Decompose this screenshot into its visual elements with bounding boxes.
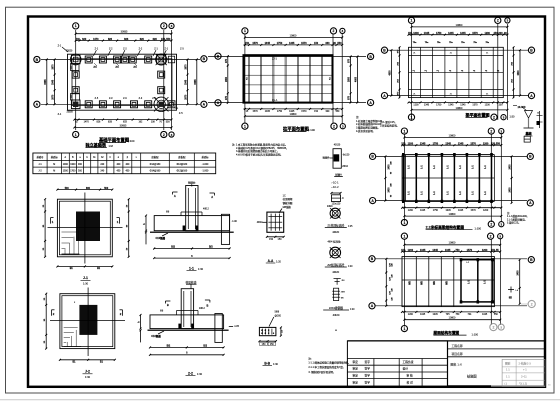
roof plan overall bottom dimension — [403, 317, 501, 321]
framing plan 2.2 segmented top dimension — [401, 143, 502, 147]
svg-text:1: 1 — [411, 115, 413, 119]
footing J-1 column (black) — [76, 212, 100, 242]
grid circle A right (column plan) — [368, 100, 374, 106]
svg-text:2850: 2850 — [349, 76, 351, 82]
svg-text:4Φ12: 4Φ12 — [203, 208, 209, 211]
section 1-1 bedding label — [156, 233, 169, 240]
svg-text:2: 2 — [531, 302, 533, 306]
roof plan segmented top dimension — [401, 249, 501, 253]
corner footing cluster bottom-right — [154, 97, 168, 111]
svg-text:2: 2 — [163, 133, 165, 137]
elevation marker right dimension — [537, 111, 543, 128]
grid circle A left (column plan) — [215, 100, 221, 106]
svg-text:1345: 1345 — [420, 249, 426, 252]
svg-text:±0.000: ±0.000 — [518, 105, 526, 109]
svg-text:Φ12@180: Φ12@180 — [176, 163, 187, 166]
corner footing cluster bottom-left — [67, 94, 81, 114]
footing top row Z-3 — [114, 56, 121, 63]
svg-text:2.基础砼C25,垫层C10,钢筋HPB235、HRB335: 2.基础砼C25,垫层C10,钢筋HPB235、HRB335。 — [236, 146, 289, 150]
elevation marker symbol — [513, 105, 534, 136]
svg-text:1: 1 — [403, 129, 405, 133]
footing J-2 section mark 2 left — [52, 310, 55, 316]
beam plan grid line B — [388, 49, 528, 51]
svg-text:10800: 10800 — [449, 134, 456, 137]
svg-text:1345: 1345 — [448, 104, 454, 106]
svg-text:1200: 1200 — [408, 314, 414, 316]
svg-text:C10垫层: C10垫层 — [156, 236, 166, 240]
roof plan thick sub-rectangle — [461, 260, 493, 302]
svg-text:Z-1: Z-1 — [58, 44, 62, 47]
grid circle A left (roof plan) — [369, 303, 375, 309]
svg-text:1:30: 1:30 — [83, 282, 89, 286]
svg-text:150: 150 — [401, 143, 406, 146]
grid circle 1 top (beam plan) — [408, 17, 414, 23]
section A-A title — [266, 259, 282, 264]
svg-text:1750: 1750 — [433, 210, 439, 212]
svg-text:ZJ-1: ZJ-1 — [272, 58, 278, 61]
svg-text:4800: 4800 — [354, 76, 357, 82]
svg-text:2: 2 — [333, 29, 335, 33]
section A-A column box — [267, 212, 284, 232]
svg-text:1345: 1345 — [446, 210, 452, 212]
svg-text:签字: 签字 — [365, 360, 371, 364]
svg-text:1300: 1300 — [63, 164, 69, 166]
svg-text:1750: 1750 — [433, 143, 439, 146]
grid circle A right (foundation plan) — [201, 101, 207, 107]
svg-text:30935: 30935 — [121, 31, 128, 34]
framing plan 2.2 title — [426, 225, 482, 231]
svg-text:Z-1: Z-1 — [58, 113, 62, 116]
svg-text:1570: 1570 — [470, 143, 476, 146]
svg-text:9085: 9085 — [45, 79, 47, 85]
grid circle 3 bottom (beam plan) — [501, 115, 506, 120]
svg-text:2870: 2870 — [53, 64, 55, 70]
footing J-1 centerlines — [48, 193, 123, 264]
svg-text:4Φ12: 4Φ12 — [199, 307, 205, 310]
svg-text:J-1: J-1 — [83, 276, 88, 280]
grid circle B right (framing 2.2) — [527, 153, 533, 159]
section 1-1 rebar marks — [166, 208, 209, 216]
column plan slab outline thick — [244, 55, 333, 102]
grid circle 3 top (roof plan) — [498, 234, 503, 239]
grid circle B left (column plan) — [215, 53, 221, 59]
svg-text:1200: 1200 — [408, 143, 414, 146]
footing top row Z-1 — [85, 56, 92, 63]
svg-text:4800: 4800 — [517, 70, 520, 76]
grid circle 3 top (framing 2.2) — [499, 129, 504, 134]
svg-text:3.箍筋加密区见图集。: 3.箍筋加密区见图集。 — [356, 126, 380, 130]
footing J-1 right dimension — [127, 198, 130, 258]
roof plan grid line B — [375, 258, 527, 260]
column plan right overall dimension — [354, 56, 358, 104]
section 1-1 title — [187, 266, 204, 271]
svg-text:150: 150 — [245, 42, 250, 45]
svg-text:250: 250 — [281, 330, 283, 333]
svg-text:1345: 1345 — [445, 249, 451, 252]
beam plan right segmented dimension — [512, 46, 515, 98]
grid circle 1 top (foundation plan) — [73, 23, 79, 29]
svg-text:1345: 1345 — [432, 249, 438, 252]
svg-text:2: 2 — [490, 234, 492, 238]
roof plan middle line — [402, 279, 494, 281]
svg-text:633: 633 — [123, 122, 128, 124]
svg-text:620: 620 — [140, 38, 145, 41]
roof plan grid line 3 — [500, 239, 502, 325]
svg-text:1:100: 1:100 — [472, 332, 479, 336]
svg-text:2400: 2400 — [388, 164, 391, 170]
section B-B title — [263, 361, 279, 366]
svg-text:550: 550 — [166, 38, 171, 41]
svg-text:550: 550 — [335, 111, 340, 113]
svg-text:1345: 1345 — [433, 314, 439, 316]
svg-text:A: A — [174, 194, 176, 198]
svg-text:⌐1C-1: ⌐1C-1 — [332, 180, 340, 184]
svg-text:10800: 10800 — [449, 242, 456, 245]
svg-text:1: 1 — [403, 221, 405, 225]
svg-text:2: 2 — [497, 19, 499, 23]
svg-text:826: 826 — [108, 38, 113, 41]
column plan interior horizontal lines — [244, 66, 333, 94]
column plan grid line 3 — [341, 34, 343, 124]
svg-text:550: 550 — [166, 122, 171, 124]
svg-text:Z-5: Z-5 — [179, 112, 183, 115]
roof plan thin verticals — [416, 257, 454, 307]
grid circle 1 bottom (framing 2.2) — [401, 219, 407, 225]
svg-text:WB: WB — [422, 281, 424, 285]
svg-text:Z1柱顶标高砼: Z1柱顶标高砼 — [327, 223, 344, 227]
svg-text:4Φ20: 4Φ20 — [333, 313, 340, 317]
svg-text:150: 150 — [493, 32, 498, 35]
section 2-2 rebar marks — [160, 307, 205, 315]
title block signature table texts — [353, 360, 414, 385]
section B-B bottom dimension boxes — [258, 340, 277, 346]
framing plan 2.2 outline — [402, 155, 494, 202]
grid circle 2 bottom (column plan) — [331, 123, 337, 129]
svg-text:4.±0.000相当于绝对标高,详见建施总说明。: 4.±0.000相当于绝对标高,详见建施总说明。 — [236, 153, 283, 157]
grid circle 2 bottom (framing 2.2) — [488, 221, 494, 227]
grid circle 2 top (foundation plan) — [161, 23, 167, 29]
svg-text:150: 150 — [314, 42, 319, 45]
svg-text:750: 750 — [455, 314, 460, 316]
svg-text:1 1: 1 1 — [506, 375, 510, 379]
svg-text:1570: 1570 — [252, 42, 258, 45]
grid circle A right (framing 2.2) — [527, 200, 533, 206]
svg-text:1345: 1345 — [289, 42, 295, 45]
svg-text:30935: 30935 — [120, 124, 127, 127]
framing plan 2.2 segmented bottom dimension — [401, 207, 502, 212]
grid circle A left (framing 2.2) — [370, 198, 376, 204]
footing left column J-2 — [72, 87, 79, 94]
svg-text:5Φ8: 5Φ8 — [275, 310, 280, 313]
foundation plan grid line 3 — [171, 30, 173, 130]
framing plan 2.2 grid line 2 — [490, 134, 492, 223]
section 2-2 section mark B right — [205, 300, 210, 308]
section A-A left label — [257, 221, 267, 224]
footing bottom row Z-4 — [131, 101, 138, 108]
svg-text:826: 826 — [124, 38, 129, 41]
footing label Z-5 outside bottom-right — [176, 108, 184, 115]
svg-text:10800: 10800 — [456, 24, 463, 27]
svg-text:⌐1C-2: ⌐1C-2 — [332, 185, 340, 189]
svg-text:2.详见结构说明。: 2.详见结构说明。 — [380, 124, 399, 128]
section B-B right dimension — [280, 326, 283, 336]
footing inner labels below top row — [93, 63, 137, 69]
svg-text:1345: 1345 — [424, 104, 430, 106]
grid circle B left (roof plan) — [369, 256, 375, 262]
section B-B beam box — [259, 327, 336, 335]
svg-text:500: 500 — [104, 188, 109, 190]
grid circle 3 top (foundation plan) — [169, 23, 174, 28]
svg-text:签字: 签字 — [365, 367, 371, 371]
svg-text:1: 1 — [411, 19, 413, 23]
svg-text:10800: 10800 — [290, 34, 297, 37]
svg-text:结施图: 结施图 — [467, 374, 477, 379]
svg-text:Φ14@180: Φ14@180 — [150, 163, 161, 166]
svg-text:签字: 签字 — [365, 373, 371, 377]
footing J-2 column (black) — [79, 305, 97, 335]
svg-text:1345: 1345 — [482, 314, 488, 316]
roof plan title — [433, 330, 478, 336]
svg-text:330: 330 — [325, 111, 330, 113]
roof plan overall top dimension — [403, 242, 501, 246]
framing plan 2.2 beams (thick verticals) — [403, 155, 491, 202]
svg-text:A-A: A-A — [268, 259, 274, 263]
svg-text:审 核: 审 核 — [407, 373, 414, 377]
column plan grid line A — [208, 101, 366, 103]
svg-text:330: 330 — [325, 42, 330, 45]
svg-text:1:20: 1:20 — [276, 259, 282, 263]
svg-text:审定: 审定 — [353, 381, 359, 385]
roof plan beam end blobs — [460, 258, 494, 303]
svg-text:1: 1 — [244, 124, 246, 128]
column plan left dimension — [226, 55, 229, 104]
svg-text:9085: 9085 — [195, 79, 197, 85]
svg-text:1:100: 1:100 — [128, 139, 135, 143]
svg-text:1:30: 1:30 — [85, 375, 91, 379]
svg-text:3.梁砼C25。: 3.梁砼C25。 — [507, 221, 521, 225]
grid circle 2 bottom gray (roof plan) — [490, 324, 497, 331]
framing plan 2.2 beam end blobs — [402, 153, 493, 203]
svg-text:1345: 1345 — [458, 210, 464, 212]
section 1-1 right pedestal — [221, 214, 229, 244]
footing J-2 plan outline — [60, 294, 115, 349]
footing J-2 section mark 2 right — [120, 310, 123, 316]
column plan segmented bottom dimension — [244, 108, 344, 113]
svg-text:740: 740 — [76, 38, 81, 41]
beam label JL-1 left side — [71, 66, 73, 98]
svg-text:1470: 1470 — [84, 122, 90, 124]
svg-text:1345: 1345 — [265, 42, 271, 45]
svg-text:1570: 1570 — [471, 210, 477, 212]
general notes block — [232, 142, 289, 156]
corner footing bottom-right axis3 — [168, 101, 175, 108]
foundation plan segmented bottom dimension — [73, 119, 172, 124]
beam plan segmented bottom dimension — [408, 101, 509, 106]
grid circle 2 top (column plan) — [330, 28, 336, 34]
beam plan grid line 1 — [411, 24, 413, 120]
section 2-2 right pedestal — [215, 314, 222, 343]
framing plan 2.2 notes — [507, 211, 529, 225]
column plan grid line B — [208, 56, 366, 58]
svg-text:2Φ12: 2Φ12 — [342, 165, 348, 168]
footing label Z-5 outside bottom-left — [58, 113, 62, 116]
svg-text:1750: 1750 — [277, 111, 283, 113]
svg-text:1200: 1200 — [483, 143, 489, 146]
roof plan grid line 2 — [490, 239, 492, 325]
svg-text:-1.00: -1.00 — [232, 221, 238, 223]
grid circle A right gray watermark (roof plan) — [521, 300, 535, 307]
svg-text:工程负责: 工程负责 — [403, 360, 414, 364]
section 1-1 section mark A right — [210, 193, 215, 199]
svg-text:4800: 4800 — [388, 70, 391, 76]
foundation plan grid line B — [41, 59, 200, 61]
section 2-2 anchor hooks — [178, 324, 193, 329]
svg-text:1570: 1570 — [467, 249, 473, 252]
svg-text:图名 1:X: 图名 1:X — [451, 362, 462, 367]
svg-text:1750: 1750 — [436, 32, 442, 35]
svg-text:预制柱: 预制柱 — [188, 181, 196, 185]
svg-text:400: 400 — [116, 164, 121, 166]
title block signature table frame — [347, 341, 447, 387]
footing J-2 centerlines — [50, 288, 125, 357]
svg-text:550: 550 — [496, 143, 501, 146]
embedded plate detail M-1 — [323, 145, 351, 169]
footing J-2 title — [83, 370, 93, 379]
svg-text:1345: 1345 — [460, 32, 466, 35]
svg-text:M: M — [53, 164, 55, 166]
section B-B annotation — [269, 310, 282, 326]
svg-text:3345: 3345 — [52, 79, 55, 85]
section 2-2 column — [181, 289, 193, 329]
beam plan right overall dimension — [517, 49, 521, 96]
section 1-1 footing body — [154, 216, 229, 231]
foundation plan overall bottom dimension — [73, 124, 172, 128]
footing J-2 left dimension — [44, 293, 47, 350]
footing top row Z-5 — [129, 56, 136, 63]
grid circle B right (beam plan) — [528, 47, 534, 53]
svg-text:2400: 2400 — [388, 187, 391, 193]
svg-text:1:25: 1:25 — [348, 226, 353, 228]
svg-text:B: B — [167, 303, 169, 307]
svg-text:4Φ20: 4Φ20 — [332, 270, 339, 274]
section 2-2 bedding label — [151, 331, 164, 338]
grid circle B right (column plan) — [368, 53, 374, 59]
weld labels 1C — [332, 180, 340, 189]
svg-text:1:50: 1:50 — [510, 115, 516, 119]
section 1-1 column top label — [188, 181, 196, 187]
svg-text:M: M — [53, 170, 55, 172]
svg-text:1345: 1345 — [265, 111, 271, 113]
footing top row Z-6 — [145, 56, 152, 63]
framing plan 2.2 left dimension — [384, 155, 390, 201]
svg-text:2850: 2850 — [226, 76, 228, 82]
svg-text:2400: 2400 — [509, 164, 512, 170]
svg-text:1300: 1300 — [70, 164, 76, 166]
grid circle 3 top (beam plan) — [505, 18, 510, 23]
grid circle 2 bottom (foundation plan) — [161, 131, 167, 137]
grid circle 1 bottom (column plan) — [242, 123, 248, 129]
svg-text:2.2米标高梁结构布置图: 2.2米标高梁结构布置图 — [426, 225, 465, 230]
svg-text:500: 500 — [65, 188, 70, 190]
svg-text:2-2: 2-2 — [188, 371, 193, 375]
svg-text:1500: 1500 — [63, 170, 69, 172]
beam plan segmented top dimension — [408, 32, 509, 36]
svg-text:@200: @200 — [275, 314, 282, 317]
svg-text:1750: 1750 — [277, 42, 283, 45]
roof plan grid line A — [375, 305, 527, 307]
footing J-1 rebar step detail — [62, 230, 80, 254]
framing plan 2.2 grid line A — [376, 200, 527, 202]
svg-text:1:100: 1:100 — [475, 226, 482, 230]
svg-text:750: 750 — [455, 249, 460, 252]
svg-text:22±4排钢筋: 22±4排钢筋 — [329, 306, 344, 310]
svg-text:1-1.1:砌体结构施工质量控制等级B级。: 1-1.1:砌体结构施工质量控制等级B级。 — [308, 361, 350, 365]
roof plan small right detail — [508, 287, 519, 293]
grid circle 2 bottom (beam plan) — [491, 114, 497, 120]
svg-text:1345: 1345 — [420, 143, 426, 146]
grid circle 2 top (beam plan) — [495, 17, 501, 23]
svg-text:2: 2 — [492, 325, 494, 329]
grid circle 3 top (column plan) — [340, 28, 345, 33]
strip footing outline outer — [68, 54, 177, 110]
framing plan 2.2 middle line — [402, 177, 494, 179]
independent footing table row J-2 — [38, 169, 209, 172]
framing plan 2.2 right dimension — [509, 155, 513, 204]
svg-text:2~11: 2~11 — [521, 375, 527, 379]
steel plate mini detail — [331, 192, 345, 205]
section 2-2 column top label — [186, 280, 197, 289]
section 2-2 bedding mat — [148, 329, 229, 331]
svg-text:1200: 1200 — [413, 104, 419, 106]
section 1-1 bottom dimension overall — [153, 255, 230, 259]
column plan grid line 1 — [244, 34, 246, 124]
svg-text:1345: 1345 — [448, 32, 454, 35]
svg-text:150: 150 — [161, 38, 166, 41]
svg-text:JL1: JL1 — [71, 66, 73, 69]
svg-text:注:: 注: — [308, 357, 312, 361]
grid circle 3 bottom (foundation plan) — [169, 132, 174, 137]
svg-text:620: 620 — [82, 38, 87, 41]
svg-text:QL-1: QL-1 — [272, 99, 278, 102]
svg-text:1:30: 1:30 — [273, 362, 279, 366]
svg-text:1345: 1345 — [458, 143, 464, 146]
grid circle B left (framing 2.2) — [370, 153, 376, 159]
section 2-2 bottom dimension overall — [149, 352, 225, 356]
svg-text:1: 1 — [403, 327, 405, 331]
svg-text:1345: 1345 — [420, 314, 426, 316]
foundation plan overall top dimension — [75, 31, 173, 35]
svg-text:签字: 签字 — [365, 381, 371, 385]
section 2-2 footing body — [150, 315, 224, 329]
faint watermark text bottom-right outside frame — [548, 384, 551, 387]
svg-text:设计: 设计 — [403, 367, 409, 371]
svg-text:1345: 1345 — [445, 143, 451, 146]
svg-text:1570: 1570 — [301, 42, 307, 45]
column plan right segmented dimension — [349, 56, 352, 104]
detail title Z3 — [323, 306, 355, 317]
column plan overall top dimension — [244, 34, 343, 38]
roof plan right dimension — [508, 259, 521, 305]
footing J-1 section mark 1 right — [117, 218, 120, 224]
foundation plan grid line 2 — [163, 30, 165, 130]
svg-text:WB: WB — [410, 281, 412, 285]
framing plan 2.2 grid line 1 — [403, 134, 405, 222]
beam plan bay labels — [413, 53, 500, 96]
corner footing cluster top-left — [66, 51, 81, 71]
section A-A bottom dimension — [266, 236, 285, 241]
foundation plan right overall dimension — [195, 59, 198, 106]
svg-text:1: 1 — [403, 234, 405, 238]
